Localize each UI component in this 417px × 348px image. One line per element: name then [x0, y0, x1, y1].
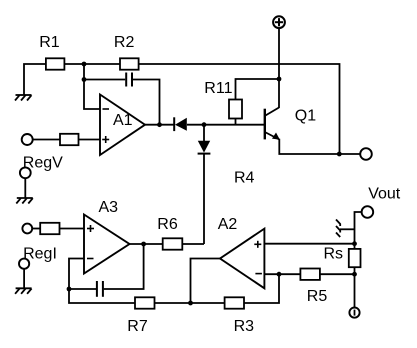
svg-text:Rs: Rs	[324, 245, 344, 262]
svg-text:R11: R11	[204, 80, 232, 97]
svg-text:Q1: Q1	[295, 107, 316, 124]
svg-text:Vout: Vout	[368, 185, 401, 202]
svg-text:A1: A1	[113, 112, 133, 129]
svg-text:R2: R2	[114, 34, 135, 51]
svg-text:A3: A3	[99, 199, 119, 216]
svg-text:A2: A2	[218, 216, 238, 233]
svg-text:R6: R6	[157, 216, 178, 233]
svg-text:R7: R7	[127, 318, 148, 335]
svg-text:R3: R3	[234, 318, 255, 335]
svg-text:RegV: RegV	[23, 155, 63, 172]
svg-text:R4: R4	[234, 169, 255, 186]
svg-text:RegI: RegI	[23, 246, 57, 263]
svg-text:R5: R5	[307, 288, 328, 305]
svg-text:R1: R1	[39, 34, 60, 51]
